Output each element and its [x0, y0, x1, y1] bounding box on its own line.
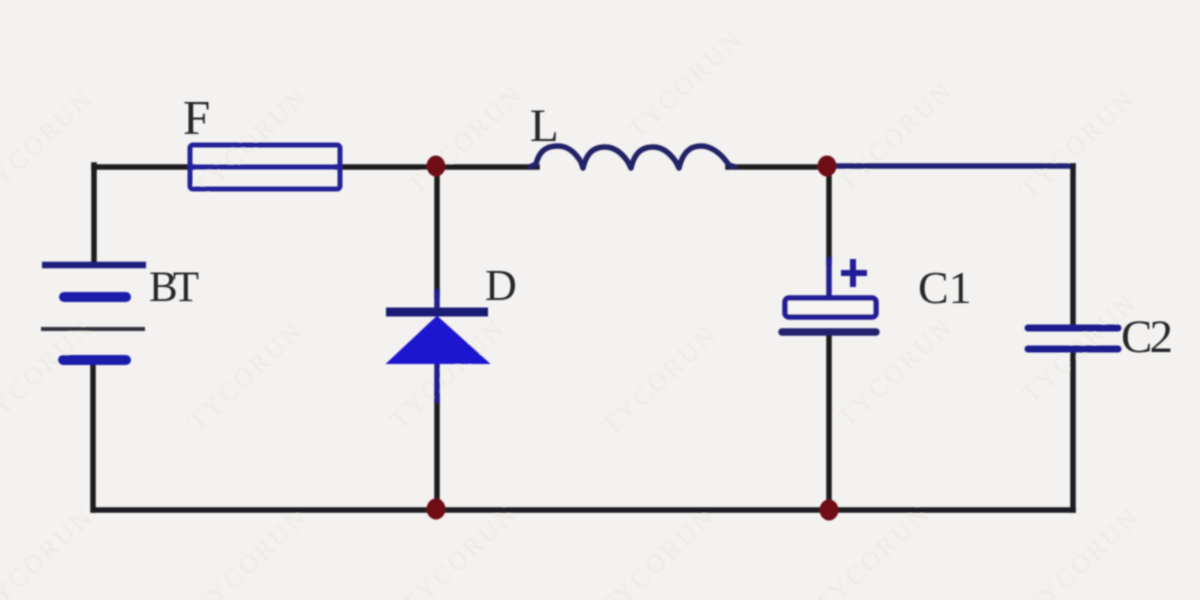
- inductor L: [530, 146, 735, 168]
- wire diode branch lower (diode to bottom rail): [434, 396, 440, 510]
- battery BT plate 4 (short thick): [63, 355, 126, 365]
- wire diode cathode stub (navy): [434, 362, 440, 400]
- wire node A to inductor: [436, 164, 537, 170]
- capacitor C2 bottom plate: [1028, 346, 1118, 353]
- node B junction dot (top, C1): [818, 156, 837, 177]
- wire inductor to node B: [728, 164, 829, 170]
- wire right vertical upper (corner to C2): [1070, 166, 1076, 327]
- capacitor C1 bottom plate: [782, 328, 876, 336]
- svg-text:BT: BT: [149, 264, 199, 311]
- diode D cathode bar: [386, 308, 488, 317]
- svg-text:L: L: [530, 100, 559, 152]
- node D junction dot (bottom, C1): [820, 500, 839, 521]
- wire left vertical (corner down to battery): [91, 165, 97, 265]
- capacitor C1 plus sign: [841, 259, 867, 287]
- wire C1 branch lower (C1 to bottom rail): [826, 334, 832, 510]
- wire bottom rail: [94, 507, 1073, 513]
- diode D triangle: [388, 317, 488, 363]
- battery BT plate 2 (short thick): [64, 292, 126, 302]
- wire left vertical lower (battery to bottom rail): [90, 360, 96, 510]
- node C junction dot (bottom, diode): [427, 499, 446, 520]
- wire node B to top-right corner: [829, 163, 1073, 169]
- wire diode branch upper (node A down to diode): [434, 167, 440, 295]
- fuse F body: [190, 145, 340, 189]
- svg-text:C2: C2: [1121, 311, 1173, 363]
- svg-text:F: F: [183, 90, 210, 145]
- svg-text:D: D: [485, 261, 517, 310]
- node A junction dot (top, diode): [427, 156, 446, 177]
- capacitor C1 top plate (hollow): [785, 298, 876, 317]
- wire C1 plus stub (navy): [826, 260, 832, 300]
- fuse F element wire: [190, 165, 340, 170]
- capacitor C2 top plate: [1028, 325, 1118, 332]
- svg-text:C1: C1: [918, 262, 972, 313]
- wire right vertical lower (C2 to bottom rail): [1070, 349, 1076, 510]
- wire fuse to node A: [338, 164, 436, 170]
- battery BT plate 3 (long thin): [41, 327, 145, 331]
- wire diode anode stub (navy): [434, 292, 440, 312]
- battery BT plate 1 (long top): [42, 262, 146, 269]
- wire top-left horizontal (battery top to fuse): [94, 164, 192, 170]
- wire C1 branch upper (node B down to C1): [826, 166, 832, 262]
